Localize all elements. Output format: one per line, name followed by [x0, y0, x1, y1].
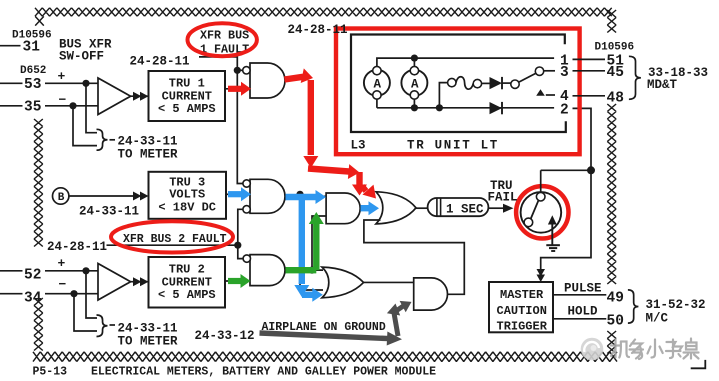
svg-text:B: B: [58, 192, 65, 204]
svg-text:CURRENT: CURRENT: [162, 89, 212, 103]
svg-text:MASTER: MASTER: [500, 288, 544, 302]
svg-text:35: 35: [24, 100, 41, 116]
svg-text:XFR BUS 2 FAULT: XFR BUS 2 FAULT: [123, 233, 227, 246]
svg-text:24-28-11: 24-28-11: [130, 55, 190, 69]
svg-text:TO METER: TO METER: [118, 148, 179, 162]
svg-text:34: 34: [24, 291, 42, 307]
svg-text:TRIGGER: TRIGGER: [497, 319, 548, 333]
svg-text:+: +: [58, 256, 66, 271]
svg-text:−: −: [59, 93, 67, 108]
svg-text:A: A: [373, 77, 381, 91]
svg-text:TR UNIT LT: TR UNIT LT: [407, 139, 499, 153]
svg-text:D10596: D10596: [595, 42, 635, 54]
svg-text:53: 53: [24, 77, 41, 93]
svg-text:50: 50: [607, 314, 624, 330]
svg-text:−: −: [59, 277, 67, 292]
svg-text:CAUTION: CAUTION: [497, 304, 547, 318]
svg-text:SW-OFF: SW-OFF: [59, 50, 104, 64]
svg-text:24-33-11: 24-33-11: [118, 322, 178, 336]
svg-text:P5-13: P5-13: [33, 366, 68, 379]
svg-text:24-28-11: 24-28-11: [47, 240, 107, 254]
svg-text:24-33-11: 24-33-11: [118, 135, 178, 149]
svg-text:+: +: [58, 69, 66, 84]
svg-text:24-33-12: 24-33-12: [195, 329, 255, 343]
svg-text:TO METER: TO METER: [118, 335, 179, 349]
svg-text:CURRENT: CURRENT: [162, 275, 212, 289]
svg-text:HOLD: HOLD: [568, 305, 599, 319]
svg-text:TRU 2: TRU 2: [169, 262, 205, 276]
svg-text:2: 2: [560, 102, 569, 118]
svg-text:31-52-32: 31-52-32: [646, 298, 706, 312]
svg-text:31: 31: [23, 40, 41, 56]
svg-text:3: 3: [560, 65, 569, 81]
svg-text:48: 48: [607, 90, 624, 106]
svg-text:M/C: M/C: [646, 311, 669, 325]
svg-text:24-33-11: 24-33-11: [79, 205, 139, 219]
svg-text:52: 52: [24, 268, 41, 284]
svg-text:FAIL: FAIL: [488, 191, 518, 205]
svg-text:ELECTRICAL METERS, BATTERY AND: ELECTRICAL METERS, BATTERY AND GALLEY PO…: [91, 366, 436, 379]
svg-text:MD&T: MD&T: [647, 78, 678, 92]
svg-text:< 18V DC: < 18V DC: [158, 200, 216, 214]
svg-text:D652: D652: [20, 65, 46, 77]
svg-text:XFR BUS: XFR BUS: [200, 28, 249, 42]
svg-text:PULSE: PULSE: [564, 281, 602, 295]
svg-text:45: 45: [607, 65, 624, 81]
svg-text:1 SEC: 1 SEC: [446, 203, 484, 217]
svg-text:24-28-11: 24-28-11: [288, 23, 348, 37]
svg-text:< 5 AMPS: < 5 AMPS: [158, 102, 216, 116]
svg-text:< 5 AMPS: < 5 AMPS: [158, 288, 216, 302]
svg-text:A: A: [411, 77, 419, 91]
svg-text:49: 49: [607, 290, 624, 306]
svg-text:L3: L3: [351, 139, 366, 153]
